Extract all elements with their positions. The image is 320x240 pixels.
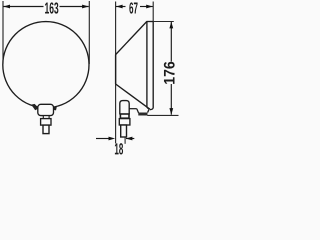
side view bottom cone slant [116,84,150,109]
176 bottom extension line [147,114,178,116]
front mount nut [41,119,51,126]
side bracket foot pad [138,113,147,116]
side bracket dome [120,101,129,115]
dim 176 line lower segment with down arrow [170,84,172,115]
side view back face + extension line (67 left ext / 18 left ext) [115,2,117,144]
dim text 67 [129,2,137,13]
dim text 18 [115,143,123,154]
side bracket band [120,114,129,118]
side bracket nut [119,119,130,125]
front mount bolt shaft [43,125,49,134]
side view back face object edge [115,55,117,84]
dim 176 line upper segment with up arrow [170,22,172,62]
side bracket step horizontal [129,108,137,110]
dim text 163 [45,2,58,13]
side bracket bolt shaft [121,125,127,137]
dim 67 line left segment with arrow [116,6,126,8]
front mount body [38,104,54,115]
176 top extension line [153,21,174,23]
dim 18 right extension line [124,137,126,144]
front mount left clip [31,104,39,110]
side view top cone slant [116,22,147,55]
front mount neck [43,116,49,119]
dim 67 line right segment with arrow [140,6,153,8]
front view: lamp circle [3,22,89,108]
side view lens front vertical (67 right ext above) [152,2,154,22]
dim 18 right tail with arrow [126,138,134,140]
dim 163 left extension line [2,1,4,64]
dim 18 left tail with arrow [96,138,111,140]
front mount right clip [52,106,57,110]
dim 163 line left segment with arrow [3,6,43,8]
dim text 176 (rotated) [164,62,175,84]
dim 163 right extension line [88,1,90,64]
side bracket step down [137,109,139,113]
dim 163 line right segment with arrow [60,6,89,8]
side view top edge [147,21,154,23]
side view rim back vertical [147,22,149,113]
